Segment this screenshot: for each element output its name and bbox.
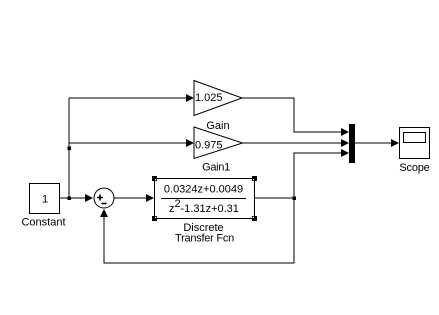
- svg-text:Gain: Gain: [206, 120, 229, 132]
- wire Constant output: [60, 194, 93, 202]
- block Discrete Transfer Fcn: [155, 179, 255, 219]
- svg-text:Scope: Scope: [399, 162, 429, 174]
- selection handle top-right: [252, 176, 257, 181]
- wire sum output: [114, 194, 154, 202]
- svg-text:0.975: 0.975: [195, 140, 223, 152]
- svg-text:1.025: 1.025: [195, 92, 223, 104]
- block Gain: [194, 81, 242, 116]
- wire to Gain1: [69, 139, 194, 147]
- junction gain1 branch: [68, 147, 72, 151]
- svg-text:1: 1: [42, 194, 48, 206]
- svg-text:-1.31z+0.31: -1.31z+0.31: [181, 203, 239, 215]
- block Constant: [30, 184, 60, 214]
- wire feedback to sum: [100, 198, 294, 263]
- wire Gain1 to Mux: [242, 139, 349, 147]
- label Discrete Transfer Fcn: [175, 222, 234, 245]
- wire branch vertical: [68, 98, 70, 198]
- selection handle bottom-left: [152, 216, 157, 221]
- wire to Gain: [69, 94, 194, 102]
- block Mux: [349, 124, 355, 163]
- wire Gain to Mux: [242, 98, 349, 136]
- wire Transfer Fcn output: [255, 197, 294, 199]
- junction constant branch: [68, 197, 72, 201]
- selection handle top-left: [152, 176, 157, 181]
- svg-text:Constant: Constant: [21, 217, 65, 229]
- sum block: [94, 188, 114, 208]
- block Gain1: [194, 127, 243, 159]
- wire Mux to Scope: [355, 139, 399, 147]
- svg-text:0.0324z+0.0049: 0.0324z+0.0049: [164, 184, 243, 196]
- wire junction to Mux: [294, 149, 349, 198]
- block Scope: [400, 128, 430, 159]
- selection handle bottom-right: [252, 216, 257, 221]
- svg-text:Transfer Fcn: Transfer Fcn: [175, 233, 234, 245]
- junction transfer fcn output: [293, 197, 297, 201]
- svg-text:Gain1: Gain1: [202, 162, 230, 174]
